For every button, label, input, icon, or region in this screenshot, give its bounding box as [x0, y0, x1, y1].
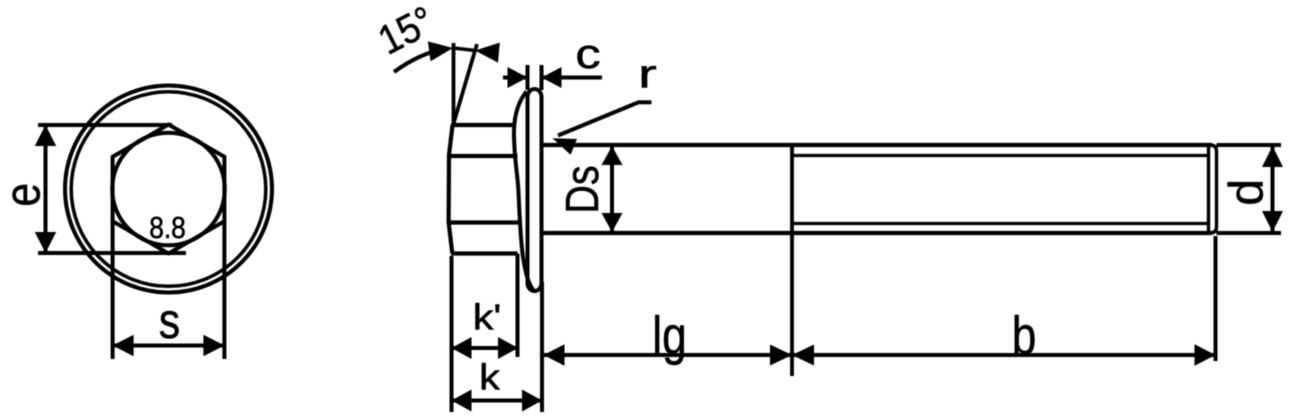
- svg-text:c: c: [575, 30, 600, 77]
- svg-text:8.8: 8.8: [149, 211, 186, 245]
- svg-text:r: r: [638, 52, 657, 96]
- svg-text:k: k: [479, 358, 500, 398]
- svg-text:s: s: [159, 293, 180, 349]
- svg-text:b: b: [1012, 306, 1037, 366]
- svg-text:Ds: Ds: [557, 165, 609, 213]
- svg-text:lg: lg: [652, 306, 686, 366]
- svg-text:e: e: [0, 183, 51, 207]
- svg-text:k': k': [473, 298, 502, 338]
- svg-text:d: d: [1221, 179, 1274, 206]
